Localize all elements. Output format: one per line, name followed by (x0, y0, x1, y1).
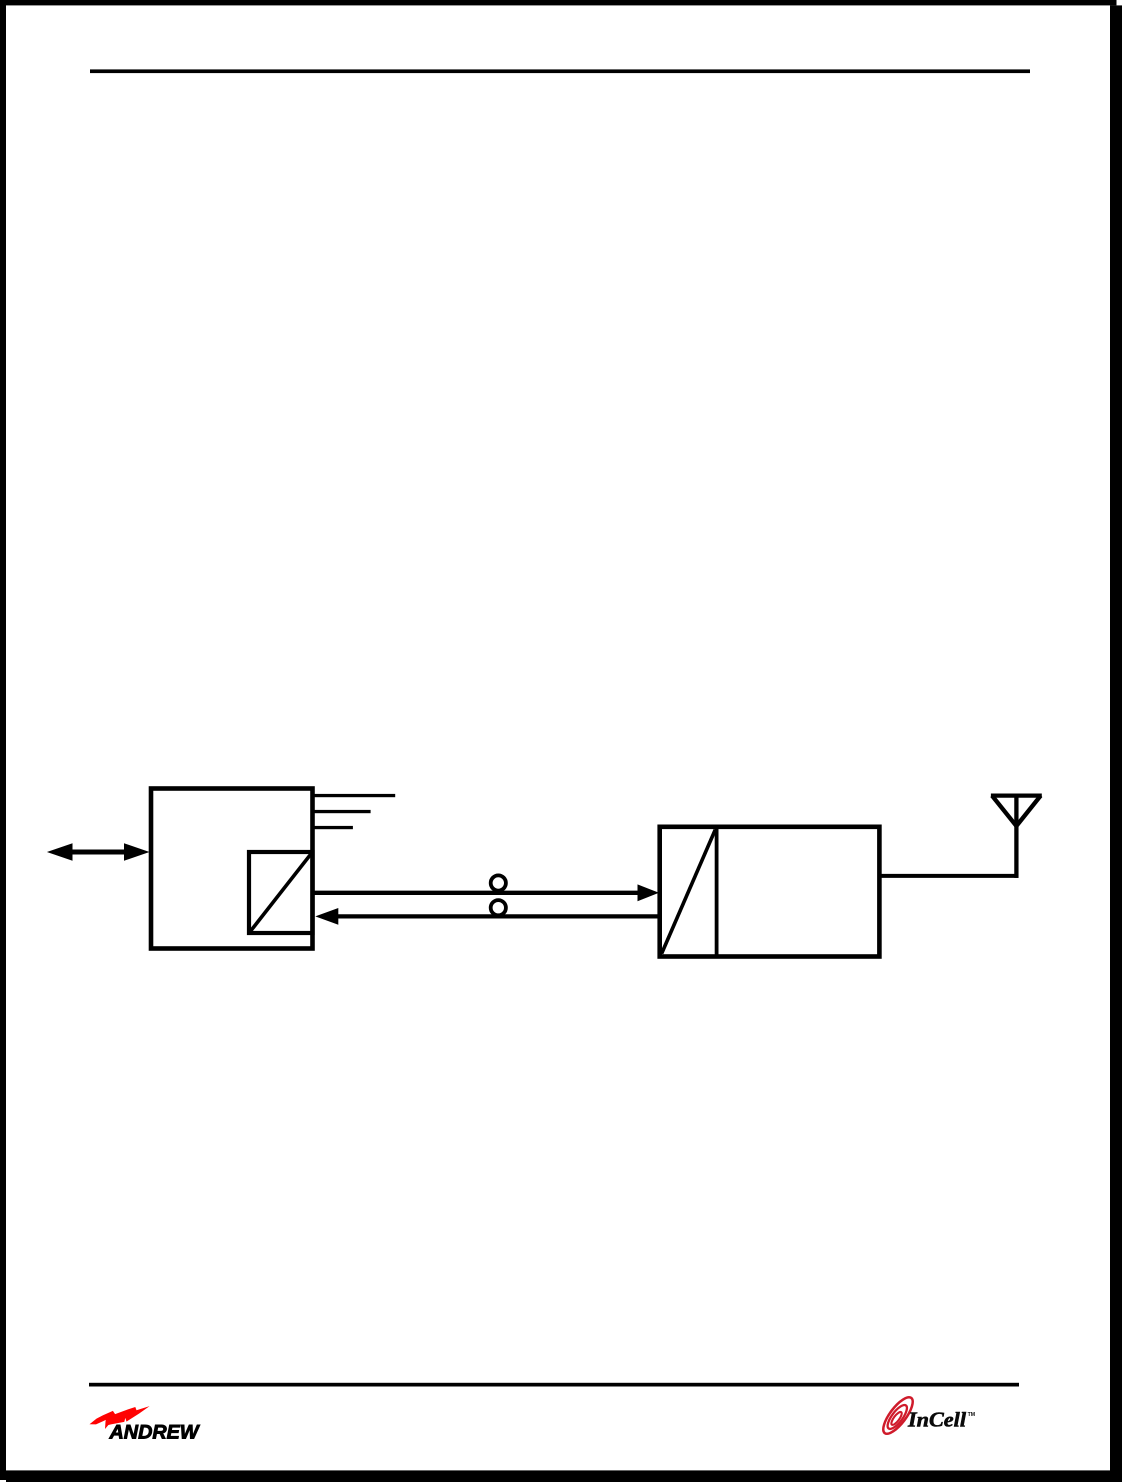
remote unit divider (715, 828, 719, 955)
antenna top bar (991, 793, 1042, 797)
BTS arrowhead right (124, 843, 150, 861)
footer rule (89, 1383, 1019, 1387)
fiber circle 1 (491, 875, 506, 890)
fiber circle 2 (491, 900, 506, 915)
page border right bar (1110, 5, 1122, 1482)
stub line 2 (313, 810, 371, 813)
header rule (90, 69, 1030, 73)
stub line 3 (313, 826, 353, 829)
downlink fiber wire (313, 891, 639, 895)
master unit box (151, 789, 313, 949)
uplink arrowhead (315, 908, 338, 925)
remote unit diagonal (662, 830, 716, 954)
BTS bidirectional arrow shaft (69, 850, 127, 855)
antenna right side (1016, 796, 1040, 826)
page border bottom bar (6, 1470, 1122, 1482)
InCell logo swirl (878, 1393, 917, 1438)
svg-text:TM: TM (968, 1412, 976, 1418)
downlink arrowhead (638, 884, 660, 901)
Andrew logo lightning bolt (90, 1406, 150, 1429)
svg-text:InCell: InCell (907, 1407, 966, 1431)
optical module diagonal (251, 854, 312, 931)
antenna feed horizontal wire (879, 874, 1018, 878)
page border left bar (0, 0, 6, 1480)
antenna feed vertical wire (1014, 794, 1018, 878)
antenna left side (992, 796, 1016, 826)
stub line 1 (313, 794, 396, 797)
remote unit box (660, 827, 880, 957)
svg-text:ANDREW: ANDREW (108, 1423, 200, 1444)
page border top bar (0, 0, 1117, 5)
uplink fiber wire (337, 914, 661, 918)
BTS arrowhead left (47, 843, 73, 861)
optical module box inside master unit (249, 852, 313, 933)
